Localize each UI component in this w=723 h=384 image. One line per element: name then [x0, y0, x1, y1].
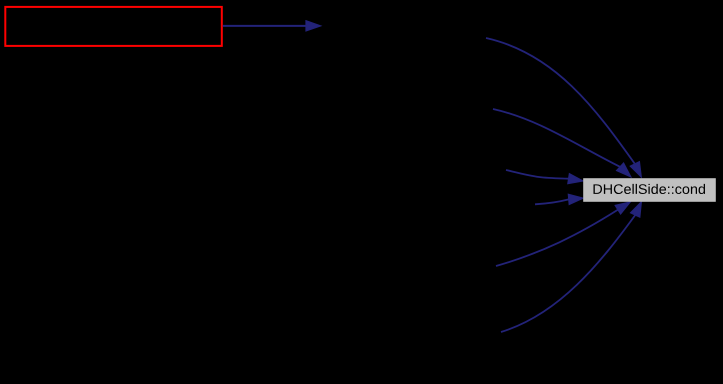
edge B6: caller 6 to DHCellSide::cond — [501, 202, 642, 333]
edge B5: caller 5 to DHCellSide::cond — [496, 202, 631, 266]
edge B3: caller 3 to DHCellSide::cond — [506, 170, 583, 184]
node: DHCellSide::cond — [583, 178, 716, 202]
edge A: current node to intermediate node — [223, 21, 321, 32]
node: current function (red highlight box, label transparent) — [5, 7, 222, 46]
edge B4: caller 4 to DHCellSide::cond — [535, 194, 584, 204]
edge B1: caller 1 to DHCellSide::cond — [486, 38, 641, 177]
edge B2: caller 2 to DHCellSide::cond — [493, 109, 631, 177]
